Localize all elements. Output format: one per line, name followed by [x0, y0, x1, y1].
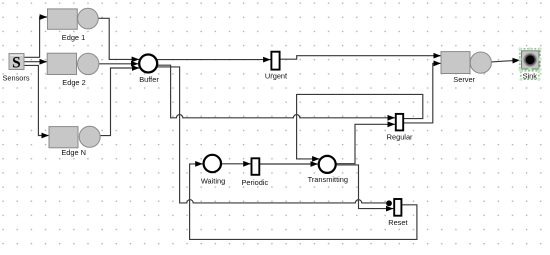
svg-text:Reset: Reset — [388, 218, 407, 227]
svg-text:Urgent: Urgent — [265, 72, 287, 81]
wire Buffer to Urgent — [157, 59, 270, 61]
wire Sensors to Edge 1 — [24, 17, 47, 57]
svg-text:Transmitting: Transmitting — [308, 175, 348, 184]
station Edge N — [49, 126, 100, 148]
wire Urgent to Server — [280, 56, 441, 60]
wire Periodic to Transmitting — [259, 163, 318, 165]
selection box Sink label — [520, 70, 541, 81]
label Urgent — [265, 72, 287, 81]
inhibitor dot at Reset input — [386, 200, 392, 206]
wire Regular to Transmitting (loop back) — [297, 94, 423, 158]
label Server — [453, 75, 475, 84]
transition Periodic — [252, 158, 260, 175]
wire Edge 2 to Buffer — [99, 63, 138, 65]
wire Transmitting to Reset — [336, 165, 394, 209]
svg-text:S: S — [12, 55, 21, 72]
station Edge 2 — [47, 53, 99, 74]
label Waiting — [201, 176, 225, 185]
svg-text:Periodic: Periodic — [241, 178, 268, 187]
label Sensors — [2, 74, 29, 83]
wire Regular to Server — [403, 63, 441, 123]
wire Server to Sink — [491, 60, 520, 62]
wire Edge 1 to Buffer — [98, 18, 139, 59]
place Transmitting — [319, 156, 336, 173]
label Edge 2 — [62, 78, 85, 87]
label Transmitting — [308, 175, 348, 184]
svg-text:Server: Server — [453, 75, 475, 84]
label Buffer — [139, 75, 159, 84]
selection box Sink icon — [519, 48, 542, 71]
transition Regular — [396, 114, 403, 130]
label Edge 1 — [62, 33, 85, 42]
transition Urgent — [271, 52, 279, 70]
label Reset — [388, 218, 407, 227]
label Edge N — [61, 148, 86, 157]
svg-text:Waiting: Waiting — [201, 176, 225, 185]
source Sensors — [9, 54, 24, 72]
wire Buffer to Regular (with hops) — [157, 65, 395, 118]
wire Sensors to Edge 2 — [24, 61, 47, 63]
transition Reset — [394, 199, 401, 216]
wire Edge N to Buffer — [100, 68, 139, 136]
sink Sink — [522, 51, 540, 69]
label Sink — [523, 72, 538, 81]
place Waiting — [204, 155, 221, 172]
svg-text:Regular: Regular — [387, 133, 413, 142]
station Server — [441, 52, 491, 74]
svg-text:Edge 1: Edge 1 — [62, 33, 85, 42]
svg-text:Edge 2: Edge 2 — [62, 78, 85, 87]
place Buffer — [139, 55, 157, 73]
svg-text:Buffer: Buffer — [139, 75, 159, 84]
svg-text:Edge N: Edge N — [61, 148, 86, 157]
station Edge 1 — [48, 8, 99, 29]
wire Sensors to Edge N — [24, 65, 49, 135]
label Periodic — [241, 178, 268, 187]
wire Transmitting to Regular — [335, 124, 395, 163]
wire Reset to Waiting (bottom loop) — [190, 164, 417, 240]
wire Buffer to Reset inhibitor dot (with hops) — [157, 67, 386, 203]
label Regular — [387, 133, 413, 142]
wire Waiting to Periodic — [221, 163, 251, 165]
svg-text:Sensors: Sensors — [2, 74, 29, 83]
